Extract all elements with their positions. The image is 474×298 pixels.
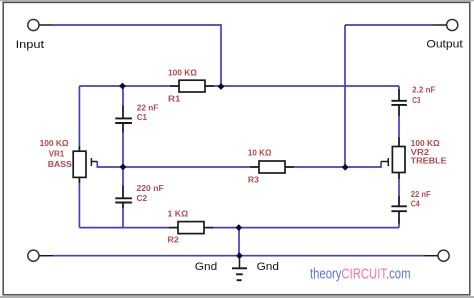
svg-text:C3: C3 bbox=[412, 96, 421, 105]
svg-text:C1: C1 bbox=[137, 113, 148, 122]
svg-text:TREBLE: TREBLE bbox=[411, 157, 448, 166]
svg-text:Gnd: Gnd bbox=[195, 261, 217, 273]
svg-text:220 nF: 220 nF bbox=[137, 184, 164, 193]
svg-text:100 KΩ: 100 KΩ bbox=[411, 139, 441, 148]
svg-text:theoryCIRCUIT.com: theoryCIRCUIT.com bbox=[310, 267, 411, 283]
svg-text:R1: R1 bbox=[168, 95, 181, 104]
svg-text:Input: Input bbox=[16, 39, 46, 51]
svg-text:22 nF: 22 nF bbox=[137, 103, 159, 112]
svg-text:10 KΩ: 10 KΩ bbox=[248, 149, 272, 158]
svg-text:1 KΩ: 1 KΩ bbox=[168, 210, 189, 219]
svg-text:C4: C4 bbox=[411, 199, 420, 208]
svg-text:C2: C2 bbox=[137, 194, 148, 203]
svg-text:Output: Output bbox=[426, 39, 463, 51]
svg-text:R3: R3 bbox=[248, 175, 260, 184]
svg-text:Gnd: Gnd bbox=[257, 261, 279, 273]
svg-text:BASS: BASS bbox=[48, 160, 73, 169]
svg-text:100 KΩ: 100 KΩ bbox=[168, 68, 198, 77]
svg-text:22 nF: 22 nF bbox=[411, 190, 431, 199]
svg-text:R2: R2 bbox=[168, 236, 180, 245]
svg-text:VR1: VR1 bbox=[49, 149, 65, 158]
svg-text:100 KΩ: 100 KΩ bbox=[40, 139, 70, 148]
svg-text:2.2 nF: 2.2 nF bbox=[412, 86, 435, 95]
